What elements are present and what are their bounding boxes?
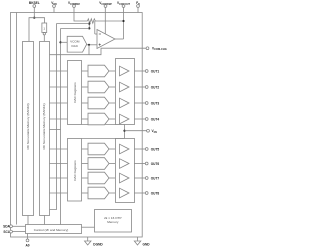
pin OUT3 bbox=[134, 102, 159, 106]
buffer A3 bbox=[120, 98, 130, 108]
pin VOS bbox=[147, 129, 158, 134]
pin VCOMREF bbox=[68, 1, 88, 21]
pin SCL bbox=[3, 230, 25, 234]
DAC D7 bbox=[82, 172, 115, 184]
wire BANK1 to control bbox=[44, 216, 46, 225]
buffer A5 bbox=[120, 144, 130, 154]
wire BANK0 to control bbox=[27, 216, 29, 225]
wire DACreg1 to buffer rail bbox=[82, 123, 125, 125]
VCOM DAC U3 bbox=[67, 36, 87, 52]
memory BANK1 box bbox=[23, 42, 34, 216]
DAC Registers box upper bbox=[68, 61, 82, 125]
node output/resistor junction bbox=[122, 20, 124, 22]
DAC Registers box lower bbox=[68, 139, 82, 202]
chip border bbox=[11, 13, 143, 238]
svg-text:GND: GND bbox=[143, 242, 151, 246]
pin A0 bbox=[25, 234, 29, 248]
wire bus A to inverting node bbox=[57, 23, 90, 25]
buffer A4 bbox=[120, 114, 130, 124]
buffer A1 bbox=[120, 66, 130, 76]
DAC D3 bbox=[82, 97, 115, 109]
buffer A8 bbox=[120, 188, 130, 198]
pin OUT5 bbox=[134, 148, 159, 152]
buffer box upper bbox=[116, 59, 135, 125]
wire BKSEL to BANK0 bbox=[29, 18, 34, 42]
wire op-amp output bbox=[115, 38, 124, 40]
wire control to OTP bbox=[82, 226, 95, 228]
op-amp U1 bbox=[97, 30, 115, 49]
pin OUT7 bbox=[134, 177, 159, 181]
ground GND bbox=[134, 237, 150, 246]
wire DACreg2 to buffer rail bbox=[82, 137, 125, 139]
buffer A7 bbox=[120, 173, 130, 183]
OTP memory box bbox=[95, 210, 132, 233]
DAC D5 bbox=[82, 143, 115, 155]
svg-text:OUT3: OUT3 bbox=[151, 102, 160, 106]
svg-text:I2C Nonvolatile Memory (BANK0): I2C Nonvolatile Memory (BANK0) bbox=[26, 103, 30, 149]
pin BKSEL bbox=[29, 1, 40, 18]
svg-text:OUT1: OUT1 bbox=[151, 70, 160, 74]
wire VDD internal rail bbox=[16, 13, 18, 225]
pin OUT1 bbox=[134, 70, 159, 74]
svg-text:2k × 16 OTP: 2k × 16 OTP bbox=[104, 216, 121, 220]
node VOS tap bbox=[123, 130, 125, 132]
DAC D4 bbox=[82, 113, 115, 125]
resistor R1 (feedback) bbox=[88, 19, 124, 23]
node inverting input bbox=[88, 21, 90, 28]
DAC D1 bbox=[82, 65, 115, 77]
DAC D6 bbox=[82, 158, 115, 170]
buffer box lower bbox=[116, 139, 135, 203]
svg-text:1: 1 bbox=[43, 27, 45, 31]
pin VCOM-CHG bbox=[146, 46, 167, 51]
pin OUT2 bbox=[134, 86, 159, 90]
svg-text:Memory: Memory bbox=[107, 220, 119, 224]
pin VS (op-amp supply) bbox=[99, 1, 112, 34]
svg-text:SCL: SCL bbox=[3, 230, 9, 234]
svg-text:OUT8: OUT8 bbox=[151, 192, 160, 196]
svg-text:OUT2: OUT2 bbox=[151, 86, 160, 90]
pin OUT4 bbox=[134, 118, 159, 122]
ground DGND bbox=[85, 237, 104, 246]
wire VCOM DAC to op-amp + bbox=[87, 44, 97, 46]
svg-text:OUT5: OUT5 bbox=[151, 148, 160, 152]
node VCOM DAC input bbox=[59, 41, 61, 43]
svg-text:OUT6: OUT6 bbox=[151, 162, 160, 166]
svg-text:Control (I/F and Memory): Control (I/F and Memory) bbox=[34, 228, 69, 232]
svg-text:I2C Nonvolatile Memory (BANK1): I2C Nonvolatile Memory (BANK1) bbox=[42, 103, 46, 149]
buffer A6 bbox=[120, 159, 130, 169]
svg-text:OUT4: OUT4 bbox=[151, 118, 160, 122]
inverter U2 (bank select) bbox=[42, 23, 47, 41]
buffer rail between boxes bbox=[124, 124, 126, 138]
svg-text:DAC: DAC bbox=[72, 44, 79, 48]
node VCOM-CHG tap bbox=[88, 44, 90, 46]
memory BANK0 box bbox=[40, 42, 50, 216]
wire bus B to inverting node bbox=[61, 28, 90, 30]
svg-text:DAC Registers: DAC Registers bbox=[73, 160, 77, 181]
control block bbox=[26, 225, 82, 234]
pin OUT6 bbox=[134, 162, 159, 166]
pin VCOM OUT bbox=[117, 1, 131, 39]
DAC D2 bbox=[82, 81, 115, 93]
pin VDD bbox=[51, 1, 57, 13]
buffer A2 bbox=[120, 82, 130, 92]
wires memory to DAC registers lower bbox=[50, 148, 68, 150]
svg-text:OUT7: OUT7 bbox=[151, 177, 160, 181]
wire BKSEL to inverter bbox=[34, 18, 44, 23]
pin SDA bbox=[3, 225, 25, 229]
wire to VCOM-CHG pin bbox=[50, 45, 90, 55]
pin OUT8 bbox=[134, 192, 159, 196]
DAC D8 bbox=[82, 187, 115, 199]
wires memory to DAC registers upper bbox=[50, 70, 68, 72]
svg-text:A0: A0 bbox=[25, 244, 29, 248]
pin FB bbox=[136, 1, 140, 13]
svg-text:DGND: DGND bbox=[93, 242, 103, 246]
svg-text:DAC Registers: DAC Registers bbox=[73, 82, 77, 103]
node BKSEL junction bbox=[33, 17, 35, 19]
